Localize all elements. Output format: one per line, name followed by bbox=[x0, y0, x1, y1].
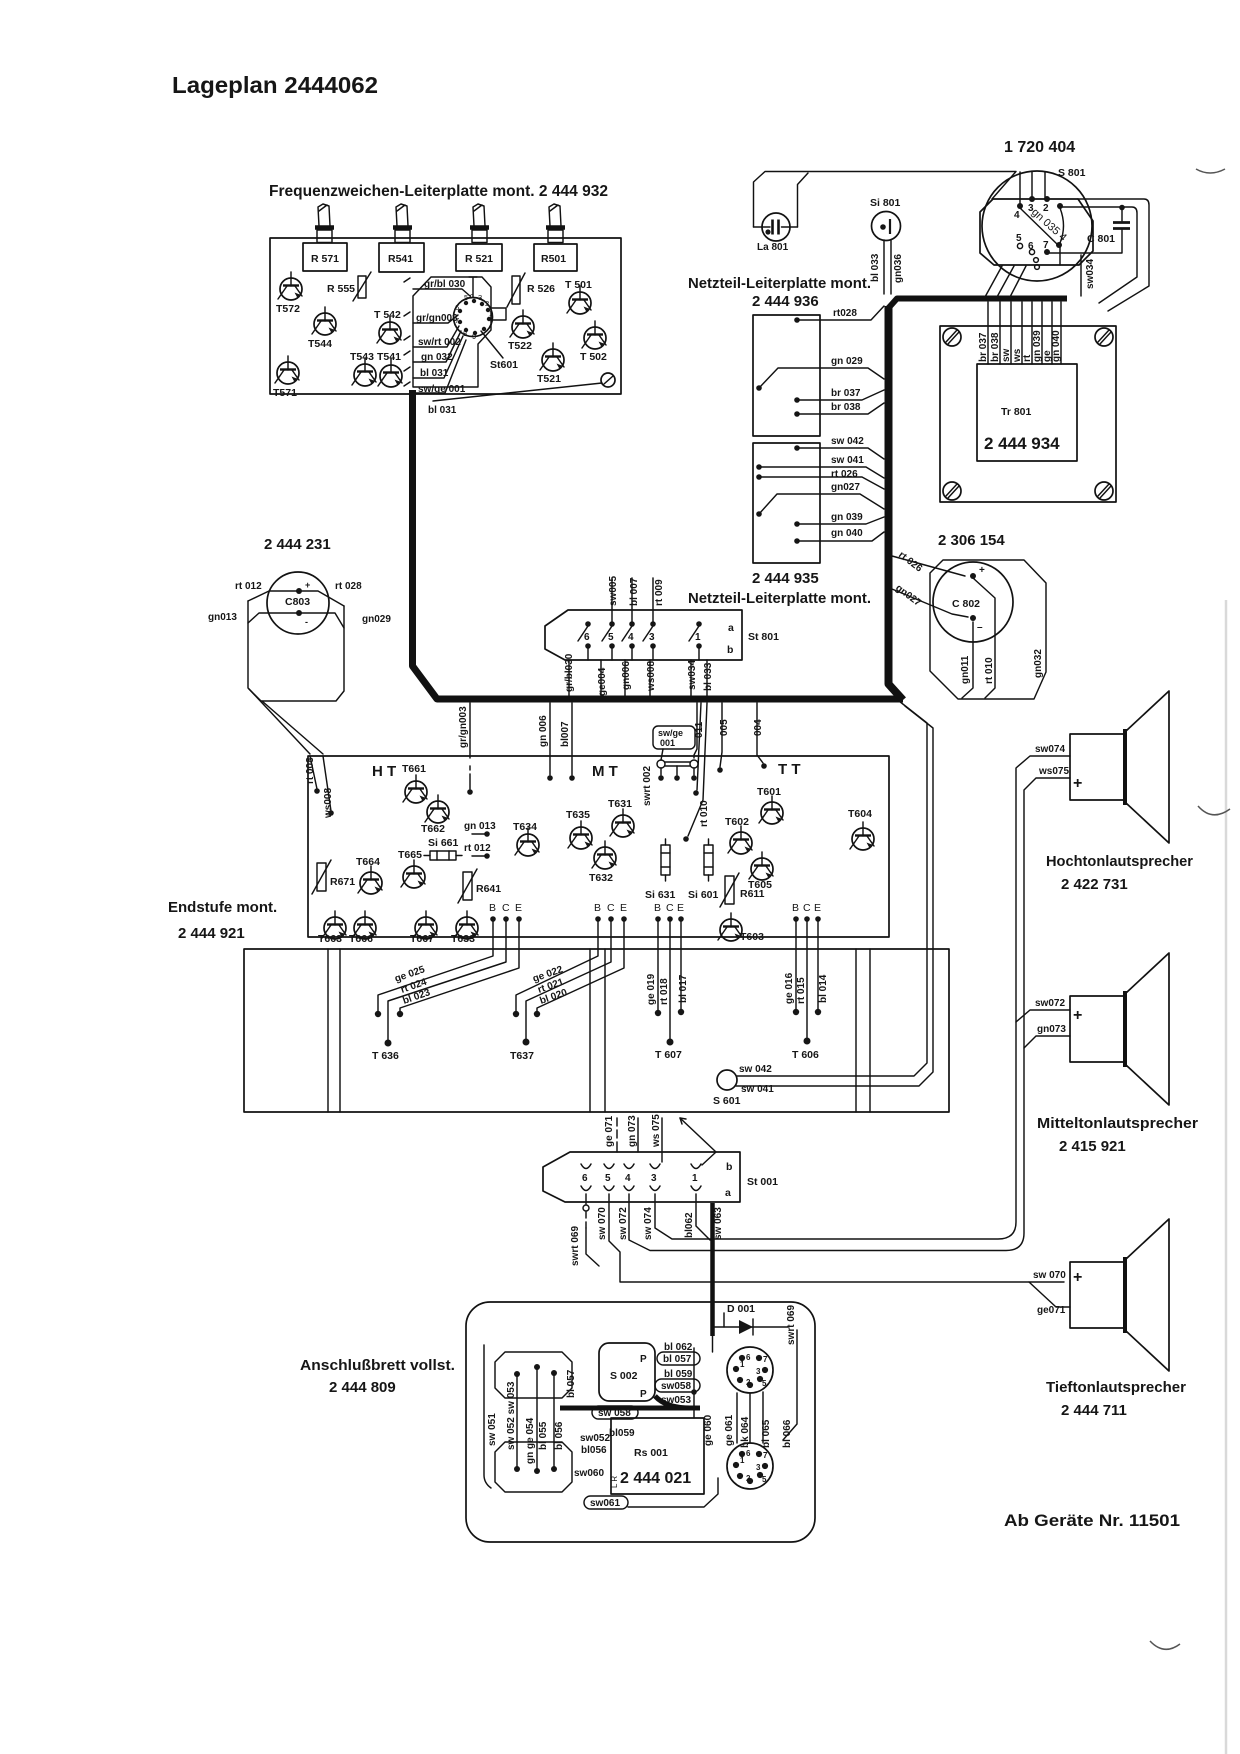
svg-text:sw/rt 002: sw/rt 002 bbox=[418, 337, 461, 348]
svg-text:sw: sw bbox=[1001, 348, 1012, 362]
svg-text:St 001: St 001 bbox=[747, 1176, 778, 1188]
svg-text:1: 1 bbox=[695, 632, 701, 643]
svg-text:ge 060: ge 060 bbox=[703, 1414, 714, 1446]
svg-text:E: E bbox=[515, 902, 522, 914]
svg-text:1: 1 bbox=[692, 1173, 698, 1184]
svg-text:B: B bbox=[594, 902, 601, 914]
svg-text:br 037: br 037 bbox=[831, 388, 861, 399]
svg-text:7: 7 bbox=[1043, 240, 1049, 251]
svg-text:bl 065: bl 065 bbox=[761, 1419, 772, 1448]
svg-text:T663: T663 bbox=[318, 933, 342, 945]
svg-text:sw034: sw034 bbox=[1085, 259, 1096, 289]
svg-text:Endstufe mont.: Endstufe mont. bbox=[168, 899, 277, 916]
svg-text:C: C bbox=[607, 902, 615, 914]
svg-text:T665: T665 bbox=[398, 849, 422, 861]
svg-text:bl 031: bl 031 bbox=[428, 405, 457, 416]
svg-text:Frequenzweichen-Leiterplatte m: Frequenzweichen-Leiterplatte mont. 2 444… bbox=[269, 183, 608, 200]
svg-text:B: B bbox=[792, 902, 799, 914]
svg-text:ge 061: ge 061 bbox=[724, 1414, 735, 1446]
svg-text:T634: T634 bbox=[513, 821, 537, 833]
svg-text:C 801: C 801 bbox=[1087, 233, 1115, 245]
svg-text:C: C bbox=[803, 902, 811, 914]
svg-text:9: 9 bbox=[472, 332, 476, 341]
svg-text:sw061: sw061 bbox=[590, 1498, 620, 1509]
svg-text:Si 801: Si 801 bbox=[870, 197, 901, 209]
svg-text:sw 072: sw 072 bbox=[618, 1207, 629, 1240]
svg-text:bl 017: bl 017 bbox=[678, 974, 689, 1003]
svg-text:gn ge 054: gn ge 054 bbox=[525, 1417, 536, 1464]
svg-text:bl 057: bl 057 bbox=[663, 1354, 692, 1365]
svg-text:bk 064: bk 064 bbox=[740, 1416, 751, 1448]
svg-text:gn032: gn032 bbox=[1033, 649, 1044, 678]
svg-text:gn027: gn027 bbox=[831, 482, 860, 493]
svg-text:St 801: St 801 bbox=[748, 631, 779, 643]
svg-text:br 038: br 038 bbox=[990, 332, 1001, 362]
svg-text:4: 4 bbox=[1014, 210, 1020, 221]
svg-text:T571: T571 bbox=[273, 387, 297, 399]
svg-text:R671: R671 bbox=[330, 876, 355, 888]
svg-text:bl 007: bl 007 bbox=[629, 577, 640, 606]
svg-text:T 502: T 502 bbox=[580, 351, 607, 363]
svg-text:+: + bbox=[1073, 1269, 1082, 1286]
svg-text:Si 661: Si 661 bbox=[428, 837, 459, 849]
svg-text:sw 042: sw 042 bbox=[831, 436, 864, 447]
svg-text:rt 026: rt 026 bbox=[831, 469, 858, 480]
svg-text:Tieftonlautsprecher: Tieftonlautsprecher bbox=[1046, 1379, 1186, 1396]
svg-text:S 002: S 002 bbox=[610, 1370, 638, 1382]
svg-text:T 636: T 636 bbox=[372, 1050, 399, 1062]
svg-text:R 555: R 555 bbox=[327, 283, 355, 295]
svg-text:sw 052 sw 053: sw 052 sw 053 bbox=[506, 1381, 517, 1450]
svg-text:6: 6 bbox=[455, 303, 459, 312]
svg-text:R 571: R 571 bbox=[311, 253, 339, 265]
svg-text:Si 601: Si 601 bbox=[688, 889, 719, 901]
svg-text:gn 029: gn 029 bbox=[831, 356, 863, 367]
svg-text:5: 5 bbox=[1016, 233, 1022, 244]
svg-text:bl 066: bl 066 bbox=[782, 1419, 793, 1448]
svg-text:T661: T661 bbox=[402, 763, 426, 775]
svg-text:R641: R641 bbox=[476, 883, 501, 895]
svg-text:+: + bbox=[1073, 775, 1082, 792]
svg-text:gn 006: gn 006 bbox=[538, 715, 549, 747]
svg-text:E: E bbox=[620, 902, 627, 914]
svg-text:sw 051: sw 051 bbox=[487, 1413, 498, 1446]
svg-text:T522: T522 bbox=[508, 340, 532, 352]
svg-text:C: C bbox=[666, 902, 674, 914]
svg-text:rt 018: rt 018 bbox=[659, 978, 670, 1005]
svg-text:H T: H T bbox=[372, 763, 396, 780]
svg-text:gn 073: gn 073 bbox=[627, 1115, 638, 1147]
svg-text:ge071: ge071 bbox=[1037, 1305, 1066, 1316]
svg-text:sw 041: sw 041 bbox=[831, 455, 864, 466]
svg-text:swrt 002: swrt 002 bbox=[642, 766, 653, 806]
svg-text:T664: T664 bbox=[356, 856, 380, 868]
svg-text:P: P bbox=[640, 1354, 647, 1365]
svg-text:Netzteil-Leiterplatte mont.: Netzteil-Leiterplatte mont. bbox=[688, 590, 871, 607]
svg-text:rt 026: rt 026 bbox=[896, 550, 924, 575]
svg-text:S 601: S 601 bbox=[713, 1095, 741, 1107]
svg-text:sw 042: sw 042 bbox=[739, 1064, 772, 1075]
svg-text:C803: C803 bbox=[285, 596, 310, 608]
svg-text:bl 056: bl 056 bbox=[554, 1421, 565, 1450]
svg-text:ge 071: ge 071 bbox=[604, 1115, 615, 1147]
svg-text:b: b bbox=[726, 1161, 732, 1173]
svg-text:Si 631: Si 631 bbox=[645, 889, 676, 901]
svg-text:004: 004 bbox=[753, 719, 764, 736]
svg-text:a: a bbox=[725, 1187, 731, 1199]
svg-text:rt028: rt028 bbox=[833, 308, 857, 319]
svg-text:T602: T602 bbox=[725, 816, 749, 828]
svg-text:gn 040: gn 040 bbox=[831, 528, 863, 539]
svg-text:ws 075: ws 075 bbox=[651, 1114, 662, 1148]
svg-text:gn 032: gn 032 bbox=[421, 352, 453, 363]
svg-text:bl059: bl059 bbox=[609, 1428, 635, 1439]
svg-text:R501: R501 bbox=[541, 253, 566, 265]
svg-text:2 444 711: 2 444 711 bbox=[1061, 1402, 1127, 1419]
svg-text:T 607: T 607 bbox=[655, 1049, 682, 1061]
svg-text:T601: T601 bbox=[757, 786, 781, 798]
svg-text:R611: R611 bbox=[740, 888, 765, 900]
svg-text:bl 055: bl 055 bbox=[538, 1421, 549, 1450]
svg-text:2 444 935: 2 444 935 bbox=[752, 570, 819, 587]
svg-text:ws075: ws075 bbox=[1038, 766, 1069, 777]
svg-text:T631: T631 bbox=[608, 798, 632, 810]
svg-text:C 802: C 802 bbox=[952, 598, 980, 610]
svg-text:L R: L R bbox=[610, 1476, 619, 1488]
svg-text:T543: T543 bbox=[350, 351, 374, 363]
svg-text:rt 012: rt 012 bbox=[464, 843, 491, 854]
svg-text:bl007: bl007 bbox=[560, 721, 571, 747]
svg-text:-: - bbox=[305, 617, 308, 627]
svg-text:sw058: sw058 bbox=[661, 1381, 691, 1392]
svg-text:Netzteil-Leiterplatte mont.: Netzteil-Leiterplatte mont. bbox=[688, 275, 871, 292]
svg-text:5: 5 bbox=[608, 632, 614, 643]
svg-text:gr/gn003: gr/gn003 bbox=[458, 706, 469, 748]
svg-text:5: 5 bbox=[605, 1173, 611, 1184]
svg-text:ge 016: ge 016 bbox=[784, 972, 795, 1004]
svg-text:T 606: T 606 bbox=[792, 1049, 819, 1061]
svg-text:b: b bbox=[727, 644, 733, 656]
svg-text:rt 028: rt 028 bbox=[335, 581, 362, 592]
svg-text:gn011: gn011 bbox=[960, 655, 971, 684]
svg-text:bl 033: bl 033 bbox=[703, 662, 714, 691]
svg-text:T603: T603 bbox=[740, 931, 764, 943]
svg-text:D 001: D 001 bbox=[727, 1303, 755, 1315]
svg-text:La 801: La 801 bbox=[757, 242, 789, 253]
svg-text:T572: T572 bbox=[276, 303, 300, 315]
svg-text:3: 3 bbox=[478, 293, 482, 302]
svg-text:T662: T662 bbox=[421, 823, 445, 835]
svg-text:3: 3 bbox=[651, 1173, 657, 1184]
svg-text:gr/bl 030: gr/bl 030 bbox=[424, 279, 466, 290]
svg-text:gr/bl030: gr/bl030 bbox=[564, 653, 575, 692]
svg-text:sw060: sw060 bbox=[574, 1468, 604, 1479]
svg-text:T632: T632 bbox=[589, 872, 613, 884]
svg-text:T T: T T bbox=[778, 761, 801, 778]
svg-text:2 444 231: 2 444 231 bbox=[264, 536, 331, 553]
svg-text:gn036: gn036 bbox=[893, 254, 904, 283]
svg-text:4: 4 bbox=[625, 1173, 631, 1184]
svg-text:T604: T604 bbox=[848, 808, 872, 820]
svg-text:br 037: br 037 bbox=[978, 332, 989, 362]
svg-text:E: E bbox=[814, 902, 821, 914]
svg-text:–: – bbox=[977, 622, 983, 633]
svg-text:6: 6 bbox=[1028, 241, 1034, 252]
svg-text:bl056: bl056 bbox=[581, 1445, 607, 1456]
svg-text:ws008: ws008 bbox=[323, 788, 334, 819]
svg-text:rt 015: rt 015 bbox=[796, 977, 807, 1004]
svg-text:sw/ge 001: sw/ge 001 bbox=[418, 384, 466, 395]
svg-text:005: 005 bbox=[719, 719, 730, 736]
svg-text:ge004: ge004 bbox=[597, 667, 608, 696]
svg-text:gn 040: gn 040 bbox=[1051, 330, 1062, 362]
svg-text:sw 074: sw 074 bbox=[643, 1207, 654, 1240]
svg-text:gn013: gn013 bbox=[208, 612, 237, 623]
svg-text:T667: T667 bbox=[410, 933, 434, 945]
svg-text:001: 001 bbox=[660, 738, 675, 748]
svg-text:2 422 731: 2 422 731 bbox=[1061, 876, 1128, 893]
svg-text:swrt 069: swrt 069 bbox=[786, 1305, 797, 1345]
svg-text:rt 010: rt 010 bbox=[699, 800, 710, 827]
svg-text:St601: St601 bbox=[490, 359, 518, 371]
svg-text:3: 3 bbox=[649, 632, 655, 643]
svg-text:+: + bbox=[1073, 1007, 1082, 1024]
svg-text:rt 010: rt 010 bbox=[984, 657, 995, 684]
svg-text:Mitteltonlautsprecher: Mitteltonlautsprecher bbox=[1037, 1115, 1198, 1132]
svg-text:6: 6 bbox=[584, 632, 590, 643]
svg-text:T541: T541 bbox=[377, 351, 401, 363]
svg-text:gn027: gn027 bbox=[893, 583, 923, 609]
svg-text:T666: T666 bbox=[349, 933, 373, 945]
svg-text:M T: M T bbox=[592, 763, 618, 780]
svg-text:rt 009: rt 009 bbox=[654, 579, 665, 606]
svg-text:rt 008: rt 008 bbox=[305, 757, 316, 784]
svg-text:B: B bbox=[654, 902, 661, 914]
svg-text:4: 4 bbox=[628, 632, 634, 643]
svg-text:B: B bbox=[489, 902, 496, 914]
svg-text:sw072: sw072 bbox=[1035, 998, 1065, 1009]
svg-text:T521: T521 bbox=[537, 373, 561, 385]
svg-text:+: + bbox=[979, 565, 985, 576]
svg-text:Tr 801: Tr 801 bbox=[1001, 406, 1032, 418]
svg-text:sw/ge: sw/ge bbox=[658, 728, 683, 738]
svg-text:T 501: T 501 bbox=[565, 279, 592, 291]
svg-text:sw 070: sw 070 bbox=[597, 1207, 608, 1240]
svg-text:Lageplan 2444062: Lageplan 2444062 bbox=[172, 72, 378, 98]
svg-text:R 526: R 526 bbox=[527, 283, 555, 295]
svg-text:8: 8 bbox=[463, 329, 467, 338]
svg-text:sw 070: sw 070 bbox=[1033, 1270, 1066, 1281]
svg-text:a: a bbox=[728, 622, 734, 634]
svg-text:P: P bbox=[640, 1389, 647, 1400]
svg-text:bl 014: bl 014 bbox=[818, 974, 829, 1003]
svg-text:Hochtonlautsprecher: Hochtonlautsprecher bbox=[1046, 853, 1193, 870]
svg-text:sw034: sw034 bbox=[687, 660, 698, 690]
svg-text:T633: T633 bbox=[451, 933, 475, 945]
svg-text:ge 019: ge 019 bbox=[646, 973, 657, 1005]
svg-text:E: E bbox=[677, 902, 684, 914]
svg-text:bl 033: bl 033 bbox=[870, 253, 881, 282]
svg-text:gn029: gn029 bbox=[362, 614, 391, 625]
svg-text:Ab Geräte Nr. 11501: Ab Geräte Nr. 11501 bbox=[1004, 1511, 1180, 1530]
svg-text:br 038: br 038 bbox=[831, 402, 861, 413]
svg-text:2 306 154: 2 306 154 bbox=[938, 532, 1005, 549]
svg-text:Anschlußbrett vollst.: Anschlußbrett vollst. bbox=[300, 1357, 455, 1374]
svg-text:gn073: gn073 bbox=[1037, 1024, 1066, 1035]
svg-text:gn006: gn006 bbox=[621, 661, 632, 690]
svg-text:2 444 921: 2 444 921 bbox=[178, 925, 245, 942]
svg-text:sw052: sw052 bbox=[580, 1433, 610, 1444]
svg-text:T544: T544 bbox=[308, 338, 332, 350]
svg-text:+: + bbox=[305, 580, 310, 590]
svg-text:sw 063: sw 063 bbox=[713, 1207, 724, 1240]
svg-text:bl062: bl062 bbox=[684, 1212, 695, 1238]
svg-text:2 444 021: 2 444 021 bbox=[620, 1470, 691, 1487]
svg-text:C: C bbox=[502, 902, 510, 914]
svg-text:6: 6 bbox=[582, 1173, 588, 1184]
svg-text:2 444 936: 2 444 936 bbox=[752, 293, 819, 310]
svg-text:R541: R541 bbox=[388, 253, 413, 265]
svg-text:2: 2 bbox=[485, 299, 489, 308]
svg-text:ws008: ws008 bbox=[646, 661, 657, 692]
svg-text:sw005: sw005 bbox=[608, 576, 619, 606]
svg-text:gr/gn003: gr/gn003 bbox=[416, 313, 458, 324]
svg-text:2 444 809: 2 444 809 bbox=[329, 1379, 396, 1396]
svg-text:T635: T635 bbox=[566, 809, 590, 821]
svg-text:2 444 934: 2 444 934 bbox=[984, 434, 1060, 453]
svg-text:bl 057: bl 057 bbox=[566, 1369, 577, 1398]
svg-text:swrt 069: swrt 069 bbox=[570, 1226, 581, 1266]
svg-text:sw074: sw074 bbox=[1035, 744, 1065, 755]
svg-text:rt 012: rt 012 bbox=[235, 581, 262, 592]
svg-text:1 720 404: 1 720 404 bbox=[1004, 139, 1075, 156]
svg-text:2 415 921: 2 415 921 bbox=[1059, 1138, 1126, 1155]
svg-text:T637: T637 bbox=[510, 1050, 534, 1062]
svg-text:bl 031: bl 031 bbox=[420, 368, 449, 379]
svg-text:gn 013: gn 013 bbox=[464, 821, 496, 832]
svg-text:R 521: R 521 bbox=[465, 253, 493, 265]
svg-text:T 542: T 542 bbox=[374, 309, 401, 321]
svg-text:gn 039: gn 039 bbox=[831, 512, 863, 523]
svg-text:Rs 001: Rs 001 bbox=[634, 1447, 668, 1459]
